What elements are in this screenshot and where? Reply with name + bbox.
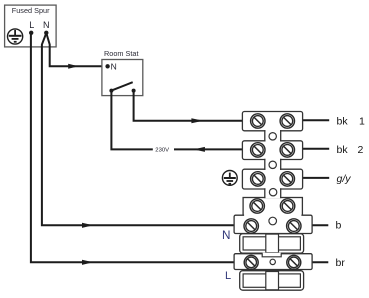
terminal block row 2 (bk 2): [242, 141, 302, 160]
terminal block row 5 (br): [234, 253, 312, 270]
wire stub bk2 right: [303, 148, 330, 150]
screw terminal row3 right: [280, 172, 294, 186]
terminal block row 3 (g/y): [242, 169, 302, 189]
wire L: spur L down then right to br terminal: [31, 33, 234, 262]
svg-text:bk: bk: [337, 115, 349, 127]
wire stub bk1 right: [303, 119, 330, 121]
terminal block row 1 (bk 1): [242, 112, 302, 131]
switch pole dot right: [132, 89, 136, 93]
node N terminal dot: [44, 31, 48, 35]
wire N to room stat: [46, 33, 106, 66]
svg-text:2: 2: [358, 144, 364, 156]
wire stub br right: [312, 261, 328, 263]
screw terminal row2 left: [251, 143, 265, 157]
screw terminal row1 left: [251, 114, 265, 128]
svg-text:Fused Spur: Fused Spur: [12, 6, 50, 15]
cable clamp 1 (below b): [240, 234, 304, 254]
svg-text:N: N: [222, 229, 230, 242]
node N dot in room stat: [105, 64, 109, 68]
bridge between row1-row2: [265, 130, 281, 142]
svg-text:g/y: g/y: [337, 173, 352, 185]
arrow on L wire: [82, 260, 93, 265]
room stat box: [102, 60, 143, 96]
svg-text:N: N: [111, 62, 117, 72]
node L terminal dot: [29, 31, 33, 35]
screw terminal b row left: [244, 219, 258, 233]
screw terminal row4 upper left: [250, 199, 264, 213]
bridge circle 2: [269, 161, 276, 168]
wire stub b right: [312, 224, 328, 226]
screw terminal br row right: [287, 255, 301, 269]
svg-text:br: br: [336, 257, 346, 269]
wire switched live: stat right pole down then right to bk1: [134, 91, 243, 121]
terminal block b assembly wide part: [234, 215, 312, 233]
terminal block row 4 upper (b assembly narrow part): [243, 198, 302, 216]
svg-text:bk: bk: [337, 144, 349, 156]
arrow on 230V wire (pointing left): [194, 147, 205, 152]
bridge between row3-row4: [265, 188, 281, 198]
wire stub g/y right: [303, 177, 330, 179]
screw terminal row2 right: [280, 143, 294, 157]
svg-text:N: N: [43, 20, 50, 30]
wire 230V supply: stat left pole down then right to bk2: [111, 91, 152, 150]
screw terminal b row right: [287, 219, 301, 233]
wire 230V supply (right segment from bk2): [174, 148, 243, 150]
svg-text:L: L: [225, 270, 231, 282]
bridge between row2-row3: [265, 159, 281, 171]
screw terminal br row left: [244, 255, 258, 269]
switch lever: [111, 82, 132, 90]
screw terminal row4 upper right: [280, 199, 294, 213]
svg-text:1: 1: [359, 115, 365, 127]
svg-text:L: L: [29, 20, 34, 30]
screw terminal row1 right: [280, 114, 294, 128]
earth symbol (fused spur): [8, 29, 23, 44]
bridge circle 1: [269, 133, 276, 140]
switch pole dot left: [109, 89, 113, 93]
erase shared edge between narrow and wide part: [244, 214, 301, 217]
arrow on N wire: [82, 223, 93, 228]
earth symbol (g/y): [222, 171, 237, 186]
svg-text:b: b: [336, 220, 342, 232]
fused spur box: [5, 5, 57, 47]
arrow on switched live wire: [191, 118, 203, 123]
cable clamp 2 (below br): [240, 271, 304, 291]
bridge circle 3: [269, 189, 276, 196]
circle in br block: [270, 259, 275, 264]
wire N: spur N down then right to b terminal: [42, 33, 234, 225]
circle in b wide part: [269, 217, 277, 225]
screw terminal row3 left: [251, 172, 265, 186]
svg-text:230V: 230V: [155, 148, 169, 154]
svg-text:Room Stat: Room Stat: [104, 49, 138, 58]
arrow on stat feed wire: [68, 64, 78, 69]
